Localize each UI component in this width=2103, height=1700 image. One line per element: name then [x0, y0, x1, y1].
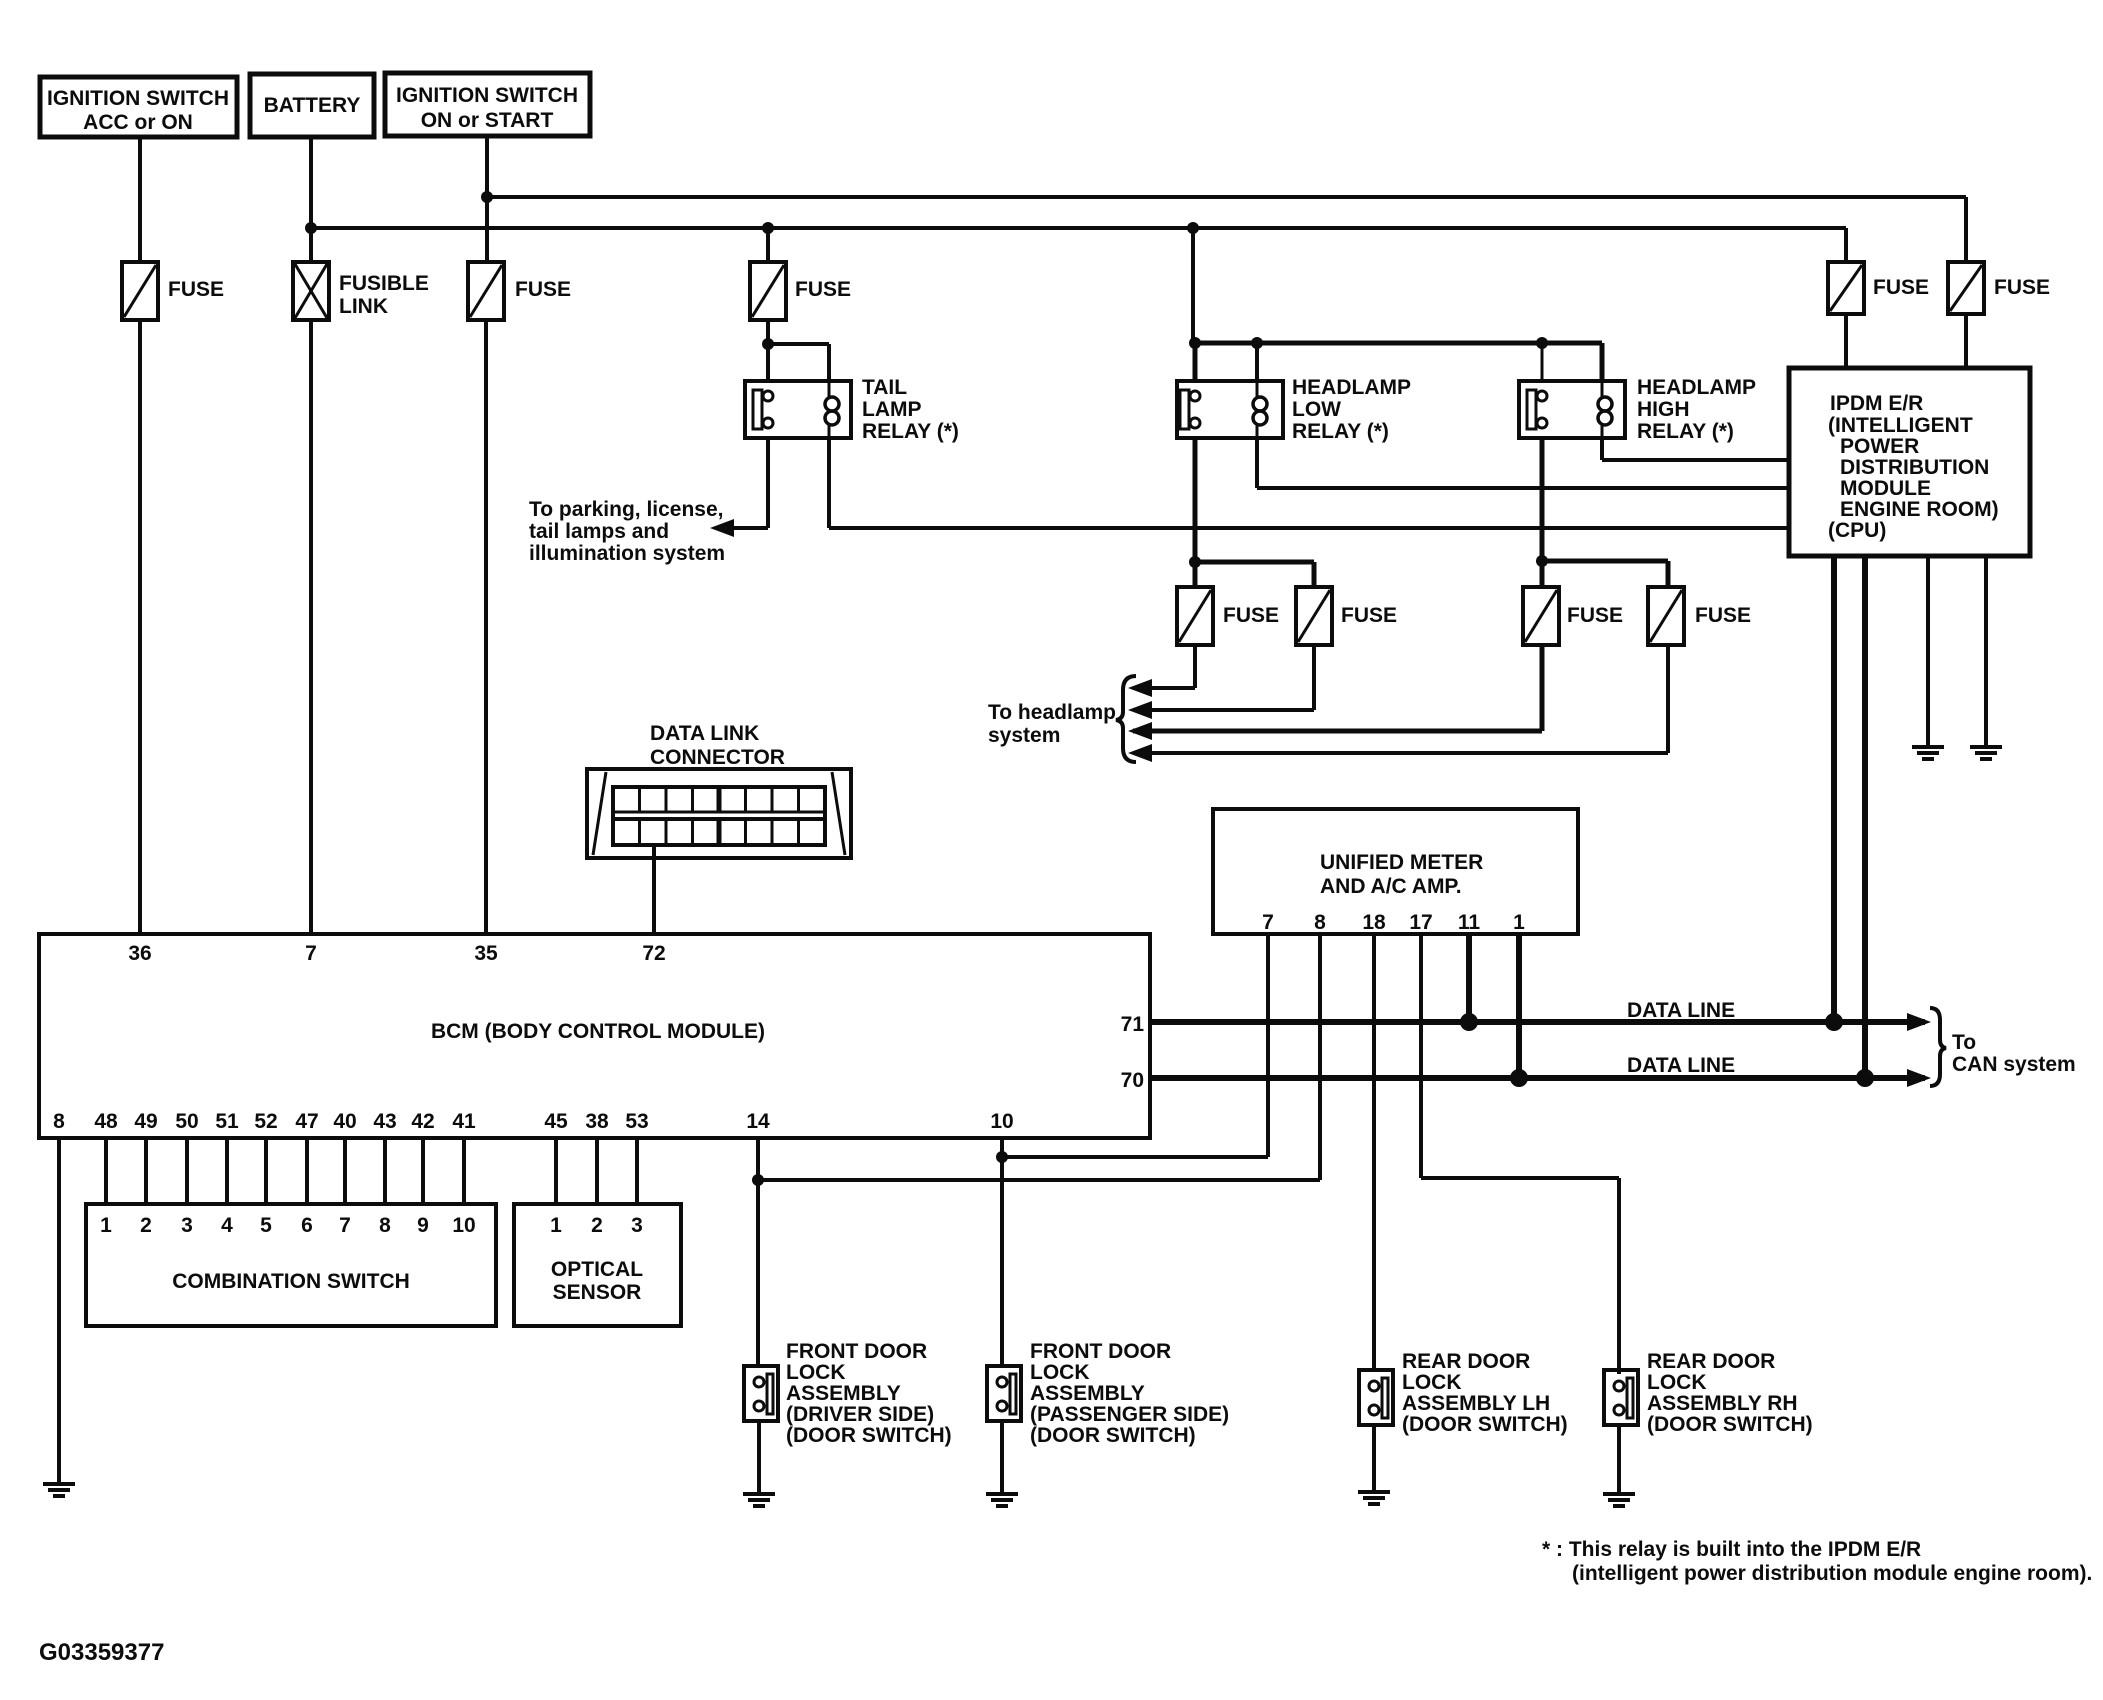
label to headlamp system	[988, 701, 1116, 747]
comb switch pin 1 label	[100, 1214, 112, 1237]
svg-text:DATA LINE: DATA LINE	[1627, 1054, 1735, 1077]
svg-text:illumination system: illumination system	[529, 542, 725, 565]
svg-text:FUSE: FUSE	[1341, 604, 1397, 627]
data line 70	[1152, 1075, 1925, 1081]
brace to CAN	[1930, 1008, 1946, 1086]
svg-text:REAR DOOR: REAR DOOR	[1647, 1350, 1775, 1373]
BCM box	[39, 934, 1150, 1138]
svg-text:1: 1	[1513, 911, 1525, 934]
wire BCM pin10 down	[1000, 1138, 1004, 1366]
svg-text:ASSEMBLY RH: ASSEMBLY RH	[1647, 1392, 1798, 1415]
wire F4 to IPDM	[1844, 314, 1848, 368]
comb switch pin 5 label	[260, 1214, 272, 1237]
svg-text:ASSEMBLY: ASSEMBLY	[1030, 1382, 1145, 1405]
svg-text:71: 71	[1121, 1013, 1145, 1036]
svg-text:(intelligent power distributio: (intelligent power distribution module e…	[1572, 1562, 2092, 1585]
fuse F2	[468, 262, 504, 320]
wire BCM to optical sensor x597	[595, 1138, 599, 1204]
wire high contact feed	[1541, 343, 1544, 381]
node relay feed junction A	[1189, 337, 1201, 349]
comb switch pin 8 label	[379, 1214, 391, 1237]
fuse FB	[1296, 587, 1332, 645]
optical sensor box	[514, 1204, 681, 1326]
wire FL to BCM pin7	[309, 320, 313, 934]
wire tail relay contact feed	[766, 344, 770, 381]
svg-text:7: 7	[1262, 911, 1274, 934]
wire driver switch to ground	[757, 1421, 761, 1494]
svg-text:BATTERY: BATTERY	[264, 94, 361, 117]
BCM pin 72 label	[642, 942, 665, 965]
wire RH switch to ground	[1617, 1425, 1621, 1494]
svg-text:RELAY (*): RELAY (*)	[1637, 420, 1734, 443]
node low contact junction	[1189, 556, 1201, 568]
BCM pin 10 label	[990, 1110, 1013, 1133]
svg-text:7: 7	[339, 1214, 351, 1237]
svg-text:6: 6	[301, 1214, 313, 1237]
label low relay	[1292, 376, 1411, 443]
wire BCM to comb switch x307	[305, 1138, 309, 1204]
brace headlamp group	[1116, 676, 1136, 762]
ground BCM pin8	[43, 1484, 75, 1496]
comb switch pin 6 label	[301, 1214, 313, 1237]
svg-text:HEADLAMP: HEADLAMP	[1292, 376, 1411, 399]
wire UM pin17 to rear RH switch	[1421, 934, 1619, 1374]
svg-text:tail lamps and: tail lamps and	[529, 520, 669, 543]
BCM pin 38 label	[585, 1110, 609, 1133]
BCM pin 7 label	[305, 942, 317, 965]
label combination switch	[172, 1270, 410, 1293]
unified meter and A/C amp box	[1213, 809, 1578, 934]
figure id	[39, 1639, 164, 1666]
BCM pin 50 label	[175, 1110, 198, 1133]
svg-text:36: 36	[128, 942, 151, 965]
wire BCM to optical sensor x556	[554, 1138, 558, 1204]
svg-text:HEADLAMP: HEADLAMP	[1637, 376, 1756, 399]
svg-text:52: 52	[254, 1110, 277, 1133]
svg-text:LOW: LOW	[1292, 398, 1341, 421]
wire ignition bus	[487, 197, 1966, 262]
wire DLC to BCM pin72	[652, 845, 656, 934]
node pin14 junction	[752, 1174, 764, 1186]
ground RH switch	[1603, 1494, 1635, 1506]
BCM pin 47 label	[295, 1110, 318, 1133]
node pin1 junction	[1510, 1069, 1528, 1087]
node pin10 junction	[996, 1151, 1008, 1163]
label data link connector	[650, 722, 785, 769]
svg-text:47: 47	[295, 1110, 318, 1133]
wire BCM to comb switch x266	[264, 1138, 268, 1204]
fuse FC	[1523, 587, 1559, 645]
svg-text:48: 48	[94, 1110, 118, 1133]
wire high contact out	[1540, 438, 1545, 561]
svg-text:49: 49	[134, 1110, 157, 1133]
label FC	[1567, 604, 1623, 627]
wire UM pin11 to data line 71	[1466, 934, 1472, 1022]
svg-text:3: 3	[181, 1214, 193, 1237]
wire battery to fusible link	[309, 137, 313, 262]
wire F5 to IPDM	[1964, 314, 1968, 368]
svg-text:51: 51	[215, 1110, 239, 1133]
node high contact junction	[1536, 555, 1548, 567]
wire FB to arrow	[1133, 645, 1314, 710]
svg-text:RELAY (*): RELAY (*)	[1292, 420, 1389, 443]
node battery bus junction	[305, 222, 317, 234]
label rear door LH	[1402, 1350, 1568, 1436]
wire low contact out	[1193, 438, 1198, 562]
svg-text:G03359377: G03359377	[39, 1639, 164, 1666]
svg-text:IGNITION SWITCH: IGNITION SWITCH	[396, 84, 578, 107]
label to CAN system	[1952, 1031, 2076, 1076]
wire relay feed bus	[1193, 343, 1602, 381]
svg-text:45: 45	[544, 1110, 568, 1133]
svg-text:(DOOR SWITCH): (DOOR SWITCH)	[786, 1424, 952, 1447]
ignition switch ON/START box	[385, 73, 590, 136]
pin 1 label	[1513, 911, 1525, 934]
svg-text:LINK: LINK	[339, 295, 388, 318]
BCM pin 48 label	[94, 1110, 118, 1133]
BCM pin 35 label	[474, 942, 498, 965]
BCM pin 36 label	[128, 942, 151, 965]
front door lock switch driver	[744, 1366, 778, 1421]
label F5	[1994, 276, 2050, 299]
arrow headlamp 2	[1128, 701, 1152, 719]
wire tail relay coil feed	[768, 344, 829, 381]
comb switch pin 2 label	[140, 1214, 152, 1237]
BCM pin 45 label	[544, 1110, 568, 1133]
svg-text:50: 50	[175, 1110, 198, 1133]
wire battery bus to tail fuse	[766, 228, 770, 262]
svg-text:ASSEMBLY: ASSEMBLY	[786, 1382, 901, 1405]
svg-text:LOCK: LOCK	[1030, 1361, 1090, 1384]
wire IPDM ground 2	[1984, 556, 1988, 747]
rear door lock switch LH	[1359, 1370, 1393, 1425]
svg-text:MODULE: MODULE	[1840, 477, 1931, 500]
label F3	[795, 278, 851, 301]
svg-text:FUSIBLE: FUSIBLE	[339, 272, 429, 295]
svg-text:18: 18	[1362, 911, 1386, 934]
BCM pin 43 label	[373, 1110, 396, 1133]
svg-text:(DOOR SWITCH): (DOOR SWITCH)	[1030, 1424, 1196, 1447]
svg-text:To parking, license,: To parking, license,	[529, 498, 724, 521]
label FL	[339, 272, 429, 318]
battery box	[250, 74, 374, 137]
BCM pin 41 label	[452, 1110, 476, 1133]
BCM pin 42 label	[411, 1110, 434, 1133]
wire BCM pin14 down	[756, 1138, 760, 1366]
arrow headlamp 4	[1128, 744, 1152, 762]
wire BCM to comb switch x345	[343, 1138, 347, 1204]
wire UM pin8 to BCM pin14 line	[758, 934, 1320, 1180]
svg-text:REAR DOOR: REAR DOOR	[1402, 1350, 1530, 1373]
svg-text:OPTICAL: OPTICAL	[551, 1258, 643, 1281]
svg-text:(PASSENGER SIDE): (PASSENGER SIDE)	[1030, 1403, 1229, 1426]
svg-text:DISTRIBUTION: DISTRIBUTION	[1840, 456, 1989, 479]
svg-text:ENGINE ROOM): ENGINE ROOM)	[1840, 498, 1999, 521]
svg-text:(CPU): (CPU)	[1828, 519, 1886, 542]
fuse F4	[1828, 262, 1864, 314]
label F4	[1873, 276, 1929, 299]
wire BCM to comb switch x106	[104, 1138, 108, 1204]
svg-text:41: 41	[452, 1110, 476, 1133]
ground IPDM 1	[1912, 747, 1944, 759]
wire BCM to optical sensor x637	[635, 1138, 639, 1204]
svg-text:system: system	[988, 724, 1060, 747]
BCM pin 51 label	[215, 1110, 239, 1133]
node low coil feed junction	[1251, 337, 1263, 349]
svg-text:DATA LINE: DATA LINE	[1627, 999, 1735, 1022]
svg-text:FUSE: FUSE	[168, 278, 224, 301]
arrow headlamp 3	[1128, 722, 1152, 740]
svg-text:TAIL: TAIL	[862, 376, 907, 399]
label IPDM	[1828, 392, 1999, 542]
label high relay	[1637, 376, 1756, 443]
wire BCM to comb switch x464	[462, 1138, 466, 1204]
ground passenger switch	[986, 1494, 1018, 1506]
svg-text:To headlamp: To headlamp	[988, 701, 1116, 724]
svg-text:9: 9	[417, 1214, 429, 1237]
svg-text:17: 17	[1409, 911, 1432, 934]
svg-text:(DOOR SWITCH): (DOOR SWITCH)	[1647, 1413, 1813, 1436]
svg-text:(DRIVER SIDE): (DRIVER SIDE)	[786, 1403, 934, 1426]
wire to fuse FA	[1193, 562, 1198, 587]
svg-text:FUSE: FUSE	[1873, 276, 1929, 299]
svg-text:42: 42	[411, 1110, 434, 1133]
relay headlamp low	[1177, 381, 1283, 438]
wire F1 to BCM pin36	[138, 320, 142, 934]
svg-text:HIGH: HIGH	[1637, 398, 1690, 421]
label data line 2	[1627, 1054, 1735, 1077]
data link connector	[587, 769, 851, 858]
BCM pin 71 label	[1121, 1013, 1145, 1036]
front door lock switch passenger	[987, 1366, 1021, 1421]
svg-text:7: 7	[305, 942, 317, 965]
svg-text:40: 40	[333, 1110, 356, 1133]
wire IPDM CAN-L	[1862, 556, 1868, 1078]
svg-text:10: 10	[452, 1214, 475, 1237]
wire BCM to comb switch x146	[144, 1138, 148, 1204]
svg-text:LOCK: LOCK	[786, 1361, 846, 1384]
label F1	[168, 278, 224, 301]
comb switch pin 7 label	[339, 1214, 351, 1237]
svg-text:1: 1	[550, 1214, 562, 1237]
svg-text:DATA LINK: DATA LINK	[650, 722, 759, 745]
pin 7 label	[1262, 911, 1274, 934]
svg-text:FRONT DOOR: FRONT DOOR	[1030, 1340, 1171, 1363]
wire UM pin18 to rear LH switch	[1372, 934, 1376, 1370]
wire IPDM CAN-H	[1831, 556, 1837, 1022]
svg-text:10: 10	[990, 1110, 1013, 1133]
rear door lock switch RH	[1604, 1370, 1638, 1425]
arrow headlamp 1	[1128, 679, 1152, 697]
svg-text:53: 53	[625, 1110, 648, 1133]
fuse FD	[1648, 587, 1684, 645]
svg-text:ON or START: ON or START	[421, 109, 554, 132]
pin 8 label	[1314, 911, 1326, 934]
svg-text:ACC or ON: ACC or ON	[83, 111, 193, 134]
wire passenger switch to ground	[1000, 1421, 1004, 1494]
svg-text:3: 3	[631, 1214, 643, 1237]
wire battery bus to relay feed	[1191, 228, 1195, 343]
pin 18 label	[1362, 911, 1386, 934]
svg-text:AND A/C AMP.: AND A/C AMP.	[1320, 875, 1462, 898]
svg-text:8: 8	[1314, 911, 1326, 934]
wire branch to fuse FD	[1542, 561, 1668, 587]
label FA	[1223, 604, 1279, 627]
svg-text:SENSOR: SENSOR	[553, 1281, 642, 1304]
data line 71	[1152, 1019, 1925, 1025]
node ignition bus junction	[481, 191, 493, 203]
BCM pin 40 label	[333, 1110, 356, 1133]
pin 11 label	[1458, 911, 1481, 934]
fuse FA	[1177, 587, 1213, 645]
svg-text:8: 8	[53, 1110, 65, 1133]
svg-text:COMBINATION SWITCH: COMBINATION SWITCH	[172, 1270, 410, 1293]
svg-text:(INTELLIGENT: (INTELLIGENT	[1828, 414, 1973, 437]
svg-text:11: 11	[1458, 911, 1481, 934]
wire BCM to comb switch x385	[383, 1138, 387, 1204]
label FD	[1695, 604, 1751, 627]
comb switch pin 3 label	[181, 1214, 193, 1237]
wire low contact feed	[1193, 343, 1198, 381]
ground IPDM 2	[1970, 747, 2002, 759]
combination switch box	[86, 1204, 496, 1326]
svg-text:ASSEMBLY LH: ASSEMBLY LH	[1402, 1392, 1550, 1415]
svg-text:FUSE: FUSE	[515, 278, 571, 301]
wire UM pin7 to BCM pin10 line	[1002, 934, 1268, 1157]
label data line 1	[1627, 999, 1735, 1022]
comb switch pin 4 label	[221, 1214, 233, 1237]
node tail fuse out junction	[762, 320, 774, 350]
svg-text:FUSE: FUSE	[1567, 604, 1623, 627]
svg-text:FUSE: FUSE	[1695, 604, 1751, 627]
label rear door RH	[1647, 1350, 1813, 1436]
svg-text:35: 35	[474, 942, 498, 965]
wire BCM to comb switch x423	[421, 1138, 425, 1204]
fuse F5	[1948, 262, 1984, 314]
svg-text:IPDM E/R: IPDM E/R	[1830, 392, 1923, 415]
node CAN-H dot	[1825, 1013, 1843, 1031]
label front door passenger	[1030, 1340, 1229, 1447]
fuse F1	[122, 262, 158, 320]
svg-text:38: 38	[585, 1110, 609, 1133]
label F2	[515, 278, 571, 301]
wire FD to arrow	[1133, 645, 1668, 753]
svg-text:FUSE: FUSE	[795, 278, 851, 301]
svg-text:* : This relay is built into t: * : This relay is built into the IPDM E/…	[1542, 1538, 1921, 1561]
svg-text:CONNECTOR: CONNECTOR	[650, 746, 785, 769]
wire BCM to comb switch x227	[225, 1138, 229, 1204]
svg-text:LAMP: LAMP	[862, 398, 922, 421]
svg-text:To: To	[1952, 1031, 1976, 1054]
svg-text:FUSE: FUSE	[1223, 604, 1279, 627]
svg-text:LOCK: LOCK	[1402, 1371, 1462, 1394]
wire F2 to BCM pin35	[484, 320, 488, 934]
wire FC to arrow	[1133, 645, 1542, 731]
arrow data line 70	[1907, 1069, 1931, 1087]
svg-text:5: 5	[260, 1214, 272, 1237]
svg-text:RELAY (*): RELAY (*)	[862, 420, 959, 443]
wire ACC to fuse F1	[138, 137, 142, 262]
wire battery bus	[311, 228, 1846, 262]
wire low coil feed	[1255, 343, 1259, 381]
BCM pin 49 label	[134, 1110, 157, 1133]
svg-text:8: 8	[379, 1214, 391, 1237]
wire tail contact out	[716, 438, 768, 528]
wire UM pin1 to data line 70	[1516, 934, 1522, 1078]
wire low coil to IPDM	[1257, 438, 1789, 488]
BCM pin 8 label	[53, 1110, 65, 1133]
label BCM	[431, 1020, 765, 1043]
label FB	[1341, 604, 1397, 627]
IPDM E/R box	[1789, 368, 2030, 556]
footnote	[1542, 1538, 2092, 1585]
arrow to parking	[710, 519, 734, 537]
wire branch to fuse FB	[1195, 562, 1314, 587]
svg-text:UNIFIED METER: UNIFIED METER	[1320, 851, 1483, 874]
svg-text:POWER: POWER	[1840, 435, 1919, 458]
wire to fuse FC	[1540, 561, 1545, 587]
BCM pin 53 label	[625, 1110, 648, 1133]
BCM pin 52 label	[254, 1110, 277, 1133]
svg-text:1: 1	[100, 1214, 112, 1237]
relay headlamp high	[1519, 381, 1625, 438]
wire BCM to comb switch x187	[185, 1138, 189, 1204]
ground driver switch	[743, 1494, 775, 1506]
label to parking	[529, 498, 725, 565]
svg-text:4: 4	[221, 1214, 233, 1237]
optical sensor pin 3 label	[631, 1214, 643, 1237]
svg-text:FUSE: FUSE	[1994, 276, 2050, 299]
svg-text:14: 14	[746, 1110, 770, 1133]
BCM pin 70 label	[1121, 1069, 1144, 1092]
svg-text:BCM (BODY CONTROL MODULE): BCM (BODY CONTROL MODULE)	[431, 1020, 765, 1043]
arrow data line 71	[1907, 1013, 1931, 1031]
svg-text:LOCK: LOCK	[1647, 1371, 1707, 1394]
svg-text:43: 43	[373, 1110, 396, 1133]
svg-text:70: 70	[1121, 1069, 1144, 1092]
svg-text:CAN system: CAN system	[1952, 1053, 2076, 1076]
pin 17 label	[1409, 911, 1432, 934]
label optical sensor	[551, 1258, 643, 1304]
comb switch pin 9 label	[417, 1214, 429, 1237]
node high contact feed junction	[1536, 337, 1548, 349]
wire IGN to fuse F2	[485, 136, 489, 262]
fuse F3 tail	[750, 262, 786, 320]
ground LH switch	[1358, 1492, 1390, 1504]
svg-text:FRONT DOOR: FRONT DOOR	[786, 1340, 927, 1363]
svg-text:(DOOR SWITCH): (DOOR SWITCH)	[1402, 1413, 1568, 1436]
BCM pin 14 label	[746, 1110, 770, 1133]
label unified meter	[1320, 851, 1483, 898]
ignition switch ACC box	[40, 77, 237, 137]
comb switch pin 10 label	[452, 1214, 475, 1237]
optical sensor pin 2 label	[591, 1214, 603, 1237]
svg-text:IGNITION SWITCH: IGNITION SWITCH	[47, 87, 229, 110]
svg-text:2: 2	[140, 1214, 152, 1237]
wire BCM pin8 to ground	[57, 1138, 61, 1484]
wire FA to arrow	[1133, 645, 1195, 688]
label front door driver	[786, 1340, 952, 1447]
wire LH switch to ground	[1372, 1425, 1376, 1492]
relay tail lamp	[745, 381, 851, 438]
svg-text:2: 2	[591, 1214, 603, 1237]
svg-text:72: 72	[642, 942, 665, 965]
wire high coil to IPDM	[1602, 438, 1789, 460]
node CAN-L dot	[1856, 1069, 1874, 1087]
node pin11 junction	[1460, 1013, 1478, 1031]
fusible link FL	[293, 262, 329, 320]
wire IPDM ground 1	[1926, 556, 1930, 747]
